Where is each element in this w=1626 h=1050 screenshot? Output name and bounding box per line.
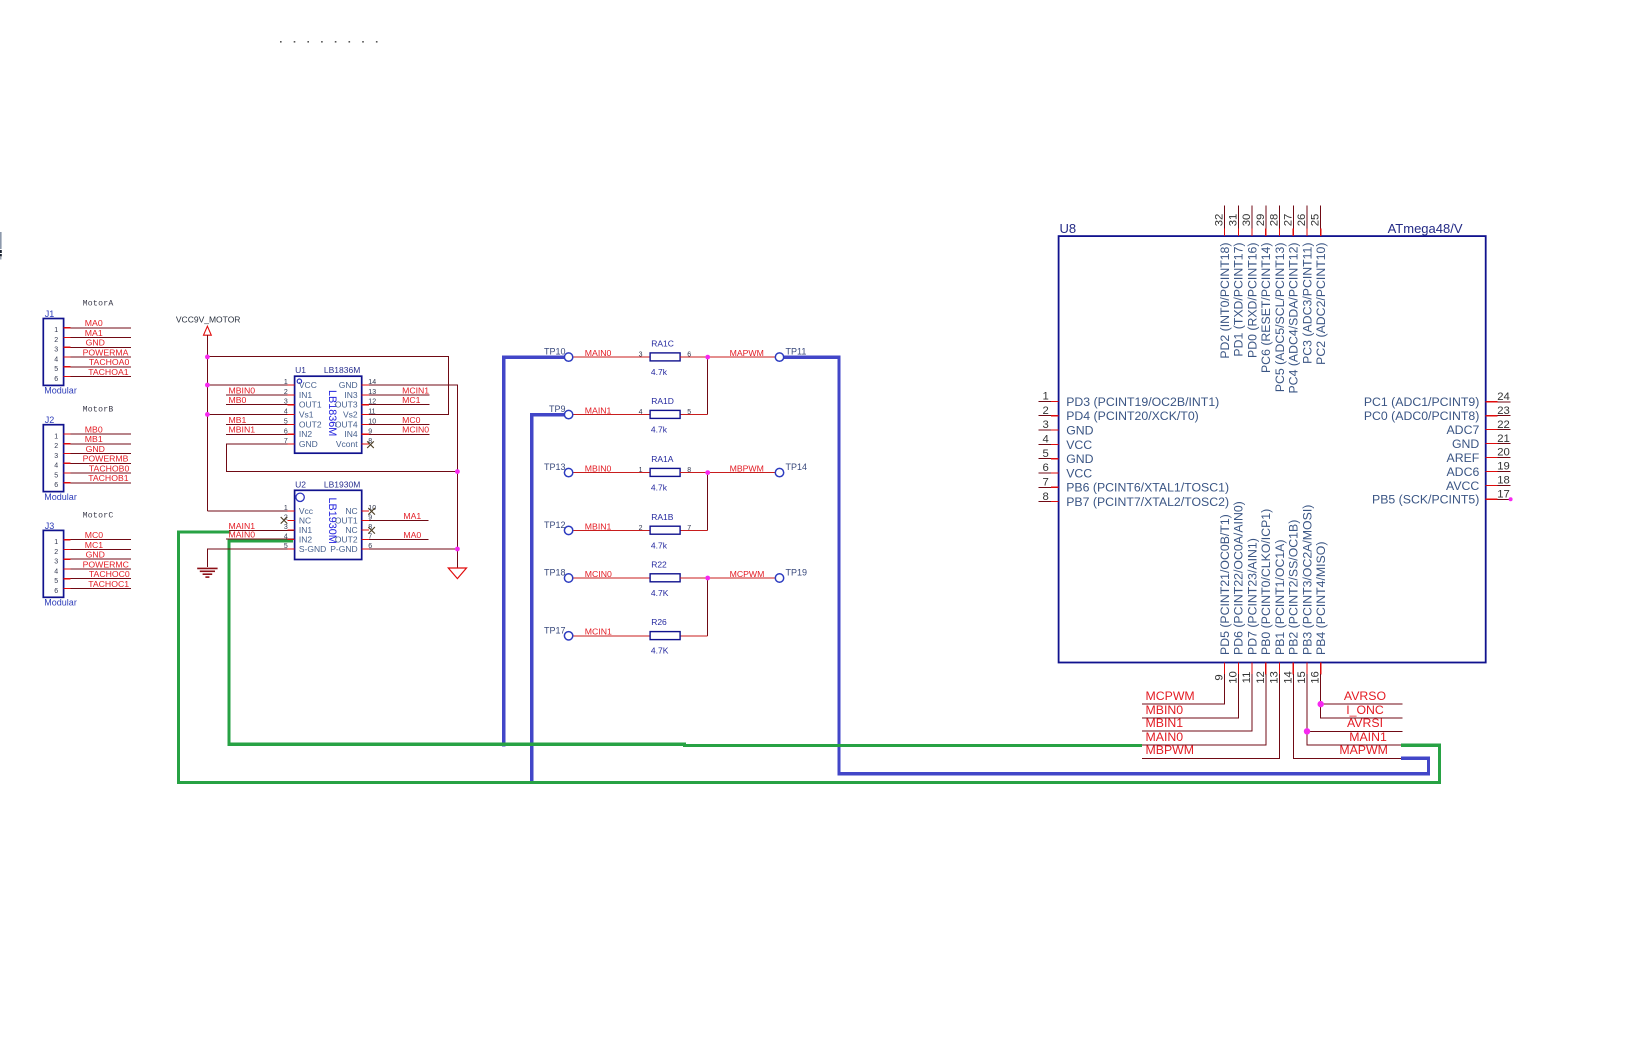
svg-text:4: 4 — [54, 568, 58, 575]
svg-text:AREF: AREF — [1447, 451, 1480, 465]
wire AVRSO from pin 16 — [1321, 703, 1403, 705]
svg-text:28: 28 — [1269, 214, 1281, 227]
svg-text:1: 1 — [284, 379, 288, 386]
no-connect X on U2 pin 8 — [368, 527, 375, 534]
svg-text:21: 21 — [1497, 433, 1510, 445]
svg-text:PB7 (PCINT7/XTAL2/TOSC2): PB7 (PCINT7/XTAL2/TOSC2) — [1066, 495, 1229, 509]
test point TP18 — [544, 568, 573, 583]
svg-text:4.7K: 4.7K — [651, 646, 669, 656]
J3 pin 6 wire / net TACHOC1 — [54, 579, 131, 595]
svg-text:10: 10 — [368, 418, 376, 425]
wire (blue) MAIN0 TP10 branch — [504, 357, 571, 746]
J2 pin 4 wire / net POWERMB — [54, 454, 131, 470]
svg-text:TP9: TP9 — [549, 404, 566, 414]
svg-text:U1: U1 — [295, 365, 306, 375]
svg-text:1: 1 — [639, 467, 643, 474]
U8 pin 4 VCC — [1038, 434, 1092, 452]
wire U2 pin6 P-GND — [362, 548, 458, 550]
J2 pin 5 wire / net TACHOB0 — [54, 463, 131, 479]
svg-text:4: 4 — [284, 409, 288, 416]
svg-text:NC: NC — [345, 525, 357, 535]
svg-text:23: 23 — [1497, 405, 1510, 417]
wire U1 pin11 Vs2 — [362, 414, 449, 416]
svg-text:PB0 (PCINT0/CLKO/ICP1): PB0 (PCINT0/CLKO/ICP1) — [1259, 509, 1273, 655]
junction VCC rail / U1 pin4 — [205, 412, 210, 417]
wire next row resistor up — [680, 529, 708, 531]
svg-text:13: 13 — [1269, 671, 1281, 684]
U8 pin 2 PD4 — [1038, 405, 1198, 423]
resistor RA1A 4.7k — [639, 454, 692, 493]
wire U2 pin1 Vcc — [207, 510, 294, 512]
svg-text:AVRSI: AVRSI — [1347, 716, 1383, 730]
J1 pin 3 wire / net GND — [54, 338, 131, 354]
svg-text:5: 5 — [687, 409, 691, 416]
svg-text:MBIN0: MBIN0 — [585, 464, 612, 474]
J2 pin 6 wire / net TACHOB1 — [54, 473, 131, 489]
svg-text:6: 6 — [54, 376, 58, 383]
svg-text:R22: R22 — [651, 559, 667, 569]
svg-text:POWERMB: POWERMB — [83, 454, 129, 464]
svg-text:17: 17 — [1497, 489, 1510, 501]
wire U8 pin 15 to MAIN1 — [1307, 674, 1401, 745]
svg-text:19: 19 — [1497, 461, 1510, 473]
svg-text:AVRSO: AVRSO — [1344, 689, 1386, 703]
J1 pin 4 wire / net POWERMA — [54, 347, 131, 363]
resistor RA1C 4.7k — [639, 339, 692, 378]
svg-text:POWERMA: POWERMA — [83, 347, 129, 357]
svg-text:TACHOB0: TACHOB0 — [89, 463, 130, 473]
svg-text:AVCC: AVCC — [1446, 479, 1479, 493]
svg-text:J3: J3 — [45, 521, 55, 531]
J2 pin 1 wire / net MB0 — [54, 424, 131, 440]
wire U2 pin5 S-GND — [207, 549, 294, 567]
U8 pin 15 PB3 — [1296, 505, 1314, 684]
svg-text:30: 30 — [1241, 214, 1253, 227]
U8 pin 29 PC6 — [1255, 206, 1273, 374]
wire U2 pin9 OUT1 MA1 — [362, 520, 429, 522]
power symbol VCC9V_MOTOR — [176, 315, 241, 341]
wire MCIN0 to R22 — [573, 577, 650, 579]
svg-text:U8: U8 — [1060, 221, 1077, 236]
svg-text:3: 3 — [639, 352, 643, 359]
svg-text:MA0: MA0 — [403, 530, 421, 540]
J1 pin 6 wire / net TACHOA1 — [54, 367, 131, 383]
wire (green) MAIN0 net highlight — [229, 541, 1142, 746]
svg-text:ADC6: ADC6 — [1446, 465, 1479, 479]
wire U1 pin13 MCIN1 — [362, 394, 430, 396]
svg-text:TACHOA0: TACHOA0 — [89, 357, 130, 367]
svg-text:MC0: MC0 — [402, 415, 421, 425]
svg-text:MB0: MB0 — [85, 424, 103, 434]
svg-text:PC6 (RESET/PCINT14): PC6 (RESET/PCINT14) — [1259, 243, 1273, 374]
svg-text:P-GND: P-GND — [330, 544, 357, 554]
svg-text:MBPWM: MBPWM — [730, 464, 764, 474]
svg-text:11: 11 — [1241, 672, 1253, 684]
svg-text:VCC: VCC — [1066, 438, 1092, 452]
svg-text:1: 1 — [54, 539, 58, 546]
test point TP19 — [775, 568, 807, 583]
svg-text:I_ONC: I_ONC — [1346, 703, 1384, 717]
wire next row resistor up — [680, 414, 708, 416]
wire MBIN0 to RA1A — [573, 472, 650, 474]
svg-text:22: 22 — [1497, 419, 1510, 431]
svg-text:MotorA: MotorA — [83, 299, 114, 308]
junction pin16/AVRSO — [1318, 701, 1324, 707]
svg-text:Modular: Modular — [44, 598, 77, 608]
wire U8 pin 16 to I_ONC — [1321, 674, 1403, 718]
U8 pin 21 GND — [1452, 433, 1510, 451]
svg-text:OUT3: OUT3 — [335, 400, 358, 410]
wire U8 pin 10 to net MBIN0 — [1142, 674, 1239, 718]
U8 pin 32 PD2 — [1214, 206, 1232, 359]
J2 pin 2 wire / net MB1 — [54, 434, 131, 450]
junction node MBPWM row3 — [705, 470, 710, 475]
wire U1 pin7 GND loop — [227, 444, 458, 472]
svg-text:5: 5 — [284, 418, 288, 425]
U8 pin 14 PB2 — [1282, 520, 1300, 684]
svg-text:MAPWM: MAPWM — [1339, 743, 1388, 757]
svg-text:MCPWM: MCPWM — [1146, 689, 1195, 703]
U8 pin 24 PC1 — [1364, 391, 1510, 409]
U8 pin 13 PB1 — [1269, 540, 1287, 684]
svg-text:MotorB: MotorB — [83, 406, 114, 415]
junction U2 P-GND — [455, 547, 460, 552]
svg-text:TP12: TP12 — [544, 520, 566, 530]
svg-text:5: 5 — [54, 366, 58, 373]
svg-text:PD5 (PCINT21/OC0B/T1): PD5 (PCINT21/OC0B/T1) — [1218, 514, 1232, 655]
svg-text:PB3 (PCINT3/OC2A/MOSI): PB3 (PCINT3/OC2A/MOSI) — [1300, 505, 1314, 655]
J3 pin 4 wire / net POWERMC — [54, 559, 131, 575]
svg-text:GND: GND — [86, 444, 105, 454]
svg-text:TP11: TP11 — [786, 347, 807, 357]
U8 pin 22 ADC7 — [1446, 419, 1510, 437]
ground (U2 S-GND) — [197, 568, 217, 577]
svg-text:PB6 (PCINT6/XTAL1/TOSC1): PB6 (PCINT6/XTAL1/TOSC1) — [1066, 481, 1229, 495]
wire U1 pin1 VCC — [207, 384, 294, 386]
svg-text:MC0: MC0 — [85, 530, 104, 540]
wire U8 pin 14 MAPWM — [1293, 674, 1401, 758]
svg-text:TACHOA1: TACHOA1 — [88, 367, 129, 377]
svg-text:LB1930M: LB1930M — [324, 479, 360, 489]
svg-text:NC: NC — [345, 506, 357, 516]
svg-text:3: 3 — [284, 524, 288, 531]
svg-text:12: 12 — [1255, 671, 1267, 684]
junction VCC rail / U1 pin1 — [205, 383, 210, 388]
svg-text:U2: U2 — [295, 479, 306, 489]
test point TP17 — [544, 625, 573, 640]
svg-text:7: 7 — [284, 438, 288, 445]
svg-text:MC1: MC1 — [402, 395, 421, 405]
wire MBIN1 to RA1B — [573, 529, 650, 531]
wire (blue) MAPWM TP11 branch — [777, 357, 1429, 774]
svg-text:6: 6 — [368, 543, 372, 550]
wire R22 to junction and TP19 — [680, 577, 775, 579]
svg-text:32: 32 — [1214, 214, 1226, 227]
U8 pin 16 PB4 — [1310, 542, 1328, 684]
svg-text:MB0: MB0 — [229, 395, 247, 405]
svg-text:MAIN0: MAIN0 — [585, 348, 612, 358]
svg-text:3: 3 — [54, 453, 58, 460]
test point TP9 — [549, 404, 573, 419]
svg-text:4: 4 — [284, 534, 288, 541]
svg-text:MCIN0: MCIN0 — [402, 425, 429, 435]
svg-text:MA1: MA1 — [85, 328, 103, 338]
svg-text:8: 8 — [687, 467, 691, 474]
svg-text:TP17: TP17 — [544, 625, 566, 635]
svg-text:MAIN1: MAIN1 — [1349, 730, 1387, 744]
U8 pin 28 PC5 — [1269, 206, 1287, 393]
svg-text:MAIN0: MAIN0 — [1146, 730, 1184, 744]
svg-text:TACHOC1: TACHOC1 — [88, 579, 129, 589]
svg-text:Vs2: Vs2 — [343, 409, 358, 419]
wire U1 pin9 MCIN0 — [362, 433, 430, 435]
svg-text:2: 2 — [54, 443, 58, 450]
svg-text:3: 3 — [284, 399, 288, 406]
svg-text:MCIN0: MCIN0 — [585, 569, 612, 579]
svg-text:2: 2 — [54, 549, 58, 556]
svg-text:26: 26 — [1296, 214, 1308, 227]
svg-text:OUT4: OUT4 — [335, 419, 358, 429]
J3 pin 2 wire / net MC1 — [54, 540, 131, 556]
svg-text:GND: GND — [86, 550, 105, 560]
U8 pin 25 PC2 — [1310, 206, 1328, 365]
connector J3 (MotorC) — [43, 511, 113, 607]
svg-text:MAPWM: MAPWM — [730, 348, 764, 358]
wire (blue) MAIN1 TP9 branch — [532, 415, 571, 785]
U8 pin 18 AVCC — [1446, 475, 1510, 493]
svg-text:4.7k: 4.7k — [651, 483, 668, 493]
svg-text:MotorC: MotorC — [83, 511, 114, 520]
svg-text:20: 20 — [1497, 447, 1510, 459]
svg-text:27: 27 — [1282, 214, 1294, 227]
svg-text:31: 31 — [1227, 214, 1239, 227]
svg-text:RA1B: RA1B — [651, 512, 674, 522]
U8 pin 8 PB7 — [1038, 491, 1229, 509]
svg-text:PC2 (ADC2/PCINT10): PC2 (ADC2/PCINT10) — [1314, 243, 1328, 365]
U8 pin 20 AREF — [1447, 447, 1511, 465]
svg-text:3: 3 — [54, 559, 58, 566]
connector J1 (MotorA) — [43, 299, 113, 395]
no-connect X on U1 pin 8 — [367, 441, 374, 448]
svg-text:TP14: TP14 — [786, 462, 808, 472]
svg-text:GND: GND — [1066, 452, 1093, 466]
ground (P-GND open triangle) — [448, 568, 466, 579]
svg-text:9: 9 — [368, 428, 372, 435]
svg-text:IN1: IN1 — [299, 390, 313, 400]
svg-text:PB2 (PCINT2/SS/OC1B): PB2 (PCINT2/SS/OC1B) — [1287, 520, 1301, 655]
svg-text:OUT2: OUT2 — [335, 534, 358, 544]
wire U8 pin 12 to net MAIN0 — [1142, 674, 1266, 745]
test point TP12 — [544, 520, 573, 535]
svg-text:1: 1 — [1043, 391, 1049, 403]
svg-text:10: 10 — [1227, 671, 1239, 684]
svg-text:9: 9 — [368, 515, 372, 522]
svg-text:MAIN0: MAIN0 — [229, 529, 256, 539]
svg-text:VCC: VCC — [1066, 466, 1092, 480]
wire (green) MAIN1 net highlight — [179, 532, 1440, 783]
svg-text:6: 6 — [54, 588, 58, 595]
svg-text:Modular: Modular — [44, 492, 77, 502]
svg-text:13: 13 — [368, 389, 376, 396]
svg-text:7: 7 — [1043, 477, 1049, 489]
wire U2 pin3 IN1 (MAIN1) — [229, 530, 295, 532]
test point TP11 — [775, 347, 806, 362]
svg-text:4.7k: 4.7k — [651, 367, 668, 377]
U8 pin 6 VCC — [1038, 462, 1092, 480]
svg-text:TP19: TP19 — [786, 568, 808, 578]
svg-text:MCIN1: MCIN1 — [585, 627, 612, 637]
svg-text:RA1A: RA1A — [651, 454, 674, 464]
test point TP13 — [544, 462, 573, 477]
svg-text:3: 3 — [1043, 419, 1049, 431]
svg-text:4.7K: 4.7K — [651, 588, 669, 598]
svg-text:Vcont: Vcont — [336, 439, 358, 449]
svg-text:4: 4 — [1043, 434, 1049, 446]
svg-text:PD7 (PCINT23/AIN1): PD7 (PCINT23/AIN1) — [1245, 538, 1259, 655]
J1 pin 2 wire / net MA1 — [54, 328, 131, 344]
svg-text:TP18: TP18 — [544, 568, 566, 578]
wire U8 pin 11 to net MBIN1 — [1142, 674, 1252, 731]
svg-text:4: 4 — [54, 463, 58, 470]
U8 pin 30 PD0 — [1241, 206, 1259, 358]
junction node MAPWM row1 — [705, 355, 710, 360]
svg-text:GND: GND — [86, 338, 105, 348]
svg-text:VCC9V_MOTOR: VCC9V_MOTOR — [176, 315, 241, 325]
wire next row resistor up — [680, 635, 708, 637]
svg-text:12: 12 — [368, 399, 376, 406]
svg-text:IN2: IN2 — [299, 429, 313, 439]
svg-text:GND: GND — [339, 380, 358, 390]
svg-text:4.7k: 4.7k — [651, 425, 668, 435]
svg-text:MA0: MA0 — [85, 318, 103, 328]
svg-text:MB1: MB1 — [85, 434, 103, 444]
svg-text:MCIN1: MCIN1 — [402, 385, 429, 395]
svg-text:4: 4 — [54, 356, 58, 363]
svg-text:4: 4 — [639, 409, 643, 416]
svg-text:MCPWM: MCPWM — [730, 569, 765, 579]
U8 pin 1 PD3 — [1038, 391, 1219, 409]
junction pin15/AVRSI — [1304, 728, 1310, 734]
wire U1 pin6 MBIN1 — [226, 433, 295, 435]
svg-text:MBIN0: MBIN0 — [1146, 703, 1184, 717]
svg-text:J2: J2 — [45, 415, 55, 425]
svg-text:2: 2 — [1043, 405, 1049, 417]
svg-text:5: 5 — [1043, 448, 1049, 460]
microcontroller U8 ATmega48/V body — [1059, 221, 1486, 663]
svg-text:24: 24 — [1497, 391, 1510, 403]
J3 pin 5 wire / net TACHOC0 — [54, 569, 131, 585]
wire U8 pin 9 to net MCPWM — [1142, 674, 1225, 704]
wire U1 pin3 MB0 — [226, 404, 295, 406]
op-amp U1 LB1836M body — [284, 365, 376, 453]
wire U1 pin12 MC1 — [362, 404, 430, 406]
svg-text:POWERMC: POWERMC — [83, 559, 129, 569]
J2 pin 3 wire / net GND — [54, 444, 131, 460]
wire junction down to next row — [707, 578, 709, 636]
svg-text:MBIN1: MBIN1 — [229, 425, 256, 435]
svg-text:5: 5 — [54, 472, 58, 479]
svg-text:TACHOC0: TACHOC0 — [89, 569, 130, 579]
svg-text:PD1 (TXD/PCINT17): PD1 (TXD/PCINT17) — [1232, 243, 1246, 357]
svg-text:29: 29 — [1255, 214, 1267, 227]
wire MAIN0 to RA1C — [573, 356, 650, 358]
wire MCIN1 to R26 — [573, 635, 650, 637]
U8 pin 12 PB0 — [1255, 509, 1273, 684]
svg-text:8: 8 — [1043, 491, 1049, 503]
U8 pin 19 ADC6 — [1446, 461, 1510, 479]
svg-text:PB1 (PCINT1/OC1A): PB1 (PCINT1/OC1A) — [1273, 540, 1287, 655]
wire RA1A to junction and TP14 — [680, 472, 775, 474]
svg-text:PC3 (ADC3/PCINT11): PC3 (ADC3/PCINT11) — [1300, 243, 1314, 364]
svg-text:TACHOB1: TACHOB1 — [88, 473, 129, 483]
wire U1 pin14 GND to ground rail — [362, 385, 458, 568]
svg-text:PC4 (ADC4/SDA/PCINT12): PC4 (ADC4/SDA/PCINT12) — [1287, 243, 1301, 394]
svg-text:PD3 (PCINT19/OC2B/INT1): PD3 (PCINT19/OC2B/INT1) — [1066, 395, 1219, 409]
node U8 pin 17 — [1509, 497, 1513, 501]
U8 pin 9 PD5 — [1214, 514, 1232, 680]
svg-text:3: 3 — [54, 347, 58, 354]
svg-text:MC1: MC1 — [85, 540, 104, 550]
svg-text:PC5 (ADC5/SCL/PCINT13): PC5 (ADC5/SCL/PCINT13) — [1273, 243, 1287, 393]
svg-text:6: 6 — [54, 482, 58, 489]
junction U1 GND loop — [455, 469, 460, 474]
svg-text:J1: J1 — [45, 309, 55, 319]
svg-text:6: 6 — [1043, 462, 1049, 474]
svg-text:14: 14 — [1282, 671, 1294, 684]
svg-text:1: 1 — [54, 327, 58, 334]
svg-text:IN2: IN2 — [299, 534, 313, 544]
resistor RA1B 4.7k — [639, 512, 692, 551]
J1 pin 1 wire / net MA0 — [54, 318, 131, 334]
no-connect X on U2 pin 2 — [281, 517, 288, 524]
wire U1 pin5 MB1 — [226, 423, 295, 425]
svg-text:RA1C: RA1C — [651, 339, 674, 349]
svg-text:1: 1 — [54, 433, 58, 440]
U8 pin 27 PC4 — [1282, 206, 1300, 394]
svg-text:Modular: Modular — [44, 386, 77, 396]
svg-text:S-GND: S-GND — [299, 544, 326, 554]
svg-text:MBIN1: MBIN1 — [585, 521, 612, 531]
svg-text:TP10: TP10 — [544, 347, 566, 357]
junction node MCPWM row5 — [705, 576, 710, 581]
svg-text:PD0 (RXD/PCINT16): PD0 (RXD/PCINT16) — [1245, 243, 1259, 358]
wire MAIN1 to RA1D — [573, 414, 650, 416]
resistor R26 4.7K — [650, 617, 680, 656]
svg-text:VCC: VCC — [299, 380, 317, 390]
svg-text:7: 7 — [687, 525, 691, 532]
svg-text:MBIN0: MBIN0 — [229, 385, 256, 395]
svg-text:1: 1 — [284, 505, 288, 512]
svg-text:16: 16 — [1310, 671, 1322, 684]
svg-text:2: 2 — [284, 389, 288, 396]
svg-text:15: 15 — [1296, 671, 1308, 684]
svg-text:2: 2 — [54, 337, 58, 344]
test point TP10 — [544, 347, 573, 362]
svg-text:LB1836M: LB1836M — [324, 365, 360, 375]
connector J2 (MotorB) — [43, 406, 113, 502]
wire RA1C to junction and TP11 — [680, 356, 775, 358]
wire U2 pin4 IN2 (MAIN0) — [226, 538, 294, 540]
svg-text:PD6 (PCINT22/OC0A/AIN0): PD6 (PCINT22/OC0A/AIN0) — [1232, 501, 1246, 655]
svg-text:RA1D: RA1D — [651, 396, 674, 406]
svg-text:MAIN1: MAIN1 — [585, 406, 612, 416]
svg-text:IN3: IN3 — [344, 390, 358, 400]
svg-text:PC0 (ADC0/PCINT8): PC0 (ADC0/PCINT8) — [1364, 409, 1479, 423]
svg-text:OUT2: OUT2 — [299, 419, 322, 429]
test point TP14 — [775, 462, 807, 477]
U8 pin 5 GND — [1038, 448, 1093, 466]
svg-text:PD4 (PCINT20/XCK/T0): PD4 (PCINT20/XCK/T0) — [1066, 409, 1199, 423]
